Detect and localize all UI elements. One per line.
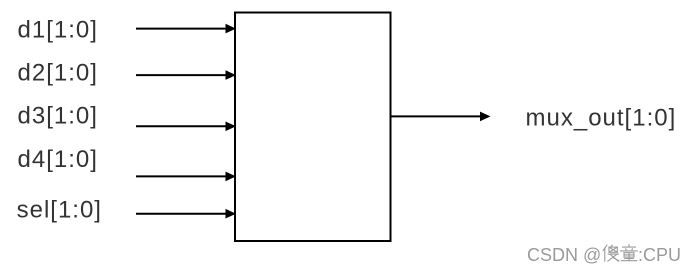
svg-text:d3[1:0]: d3[1:0] xyxy=(18,103,98,130)
svg-text:d4[1:0]: d4[1:0] xyxy=(18,146,98,173)
svg-text:sel[1:0]: sel[1:0] xyxy=(17,197,102,224)
svg-text:mux_out[1:0]: mux_out[1:0] xyxy=(526,105,677,132)
svg-text:CSDN @: CSDN @ xyxy=(527,245,601,265)
svg-text:d1[1:0]: d1[1:0] xyxy=(18,17,98,44)
svg-text:d2[1:0]: d2[1:0] xyxy=(18,60,98,87)
svg-text::CPU: :CPU xyxy=(638,245,681,265)
